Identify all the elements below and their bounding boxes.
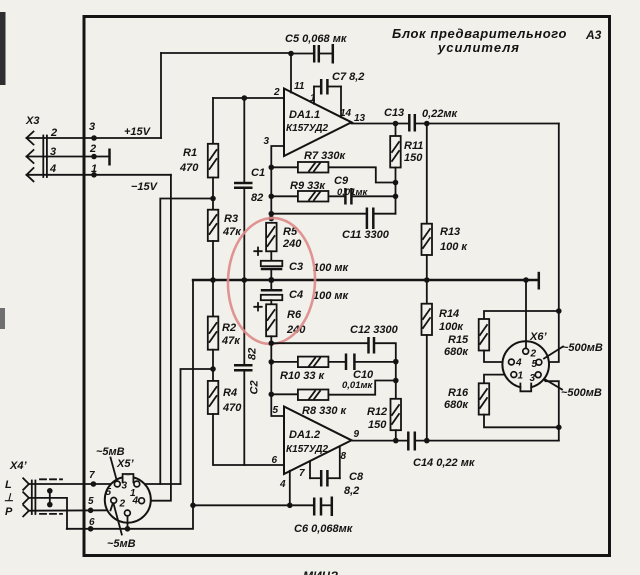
resistor R4 — [208, 369, 284, 465]
leader to lower 500mV — [544, 379, 562, 390]
svg-text:680к: 680к — [444, 399, 469, 411]
svg-text:R13: R13 — [440, 226, 460, 238]
connector X3 arrow row 2 — [27, 150, 34, 163]
svg-text:5: 5 — [88, 496, 94, 507]
leader lower 5mV from pin 5 — [114, 504, 122, 535]
svg-text:5: 5 — [273, 405, 279, 416]
pin 11 stub — [290, 54, 292, 93]
svg-text:150: 150 — [368, 419, 387, 431]
X6 pin 5 — [536, 359, 542, 365]
node bus R3/R2 — [210, 277, 216, 283]
scan artifact left edge top — [0, 12, 6, 85]
node R1/R3 -15V — [210, 196, 216, 202]
svg-text:С12 3300: С12 3300 — [350, 324, 399, 336]
svg-text:4: 4 — [49, 163, 56, 175]
svg-text:R10 33 к: R10 33 к — [280, 370, 326, 382]
capacitor C11 — [269, 208, 396, 230]
svg-text:А3: А3 — [585, 28, 602, 42]
svg-text:5: 5 — [106, 487, 112, 498]
svg-text:0,22мк: 0,22мк — [422, 108, 459, 120]
capacitor C14 — [408, 432, 559, 451]
wire X6 pin1 row — [484, 375, 511, 384]
pin 4 riser — [289, 471, 291, 506]
wire pin3 to output vertical (CH2) — [541, 376, 559, 440]
svg-text:R3: R3 — [224, 213, 238, 225]
svg-text:82: 82 — [251, 192, 263, 204]
X5 pin 5 — [111, 498, 117, 504]
output wire DA1.2 pin 9 — [352, 440, 408, 442]
svg-text:2: 2 — [273, 87, 280, 98]
svg-text:0,01мк: 0,01мк — [342, 380, 374, 391]
connector X3 mating bars — [42, 136, 44, 178]
svg-text:~5мВ: ~5мВ — [96, 446, 125, 458]
op-amp U2 DA1.2 — [284, 407, 352, 475]
svg-text:⊥: ⊥ — [4, 492, 14, 504]
X5 pin 5 tail — [111, 503, 113, 510]
svg-text:С5 0,068 мк: С5 0,068 мк — [285, 33, 348, 45]
connector X5 circle — [105, 477, 151, 523]
capacitor C2 (rotated labels) — [234, 280, 253, 465]
node R2/R4 — [210, 366, 216, 372]
svg-text:470: 470 — [222, 402, 242, 414]
node X3 pin3 — [91, 135, 97, 141]
node bus R13/R14 — [424, 277, 430, 283]
capacitor C1 — [234, 98, 253, 280]
svg-text:3: 3 — [122, 481, 128, 492]
connector X3 arrow row 1 — [27, 132, 34, 145]
plus sign of C3 — [254, 248, 261, 256]
scan artifact left edge middle — [0, 308, 5, 329]
wire input L riser from X5 pin1 to R1/R3 node — [140, 483, 181, 485]
node R6 bottom / C12 row — [269, 340, 275, 346]
svg-text:С3: С3 — [289, 261, 303, 273]
plus sign of C4 — [254, 303, 261, 311]
node R5 top — [269, 216, 275, 222]
wire -15V long descender to X5 pin4 — [145, 175, 171, 501]
resistor R7 — [269, 162, 396, 183]
svg-text:0,01мк: 0,01мк — [337, 187, 369, 198]
svg-text:R15: R15 — [448, 334, 469, 346]
svg-text:−15V: −15V — [131, 181, 159, 193]
shield drain — [49, 491, 51, 506]
svg-text:Х4’: Х4’ — [9, 460, 27, 472]
svg-text:6: 6 — [272, 455, 278, 466]
node after C13 — [424, 121, 430, 127]
svg-text:Х3: Х3 — [25, 115, 39, 127]
resistor R16 — [479, 383, 559, 427]
svg-text:1: 1 — [310, 93, 316, 104]
svg-text:3: 3 — [264, 136, 270, 147]
wire +15V top rail — [161, 52, 291, 54]
node R7 wire — [393, 180, 399, 186]
svg-text:С1: С1 — [251, 167, 265, 179]
X4 arrow row L — [23, 478, 29, 490]
capacitor C10 — [346, 354, 396, 371]
ground bus (mid horizontal) — [193, 279, 537, 281]
resistor R2 — [208, 280, 219, 369]
svg-text:7: 7 — [89, 470, 95, 481]
svg-text:240: 240 — [282, 238, 302, 250]
svg-text:С2: С2 — [249, 380, 261, 394]
X5 pin 4 — [139, 498, 145, 504]
X4 wire R row — [29, 509, 110, 511]
svg-text:С9: С9 — [334, 175, 349, 187]
X4 arrow row R — [23, 505, 29, 516]
svg-text:С14 0,22 мк: С14 0,22 мк — [413, 457, 476, 469]
svg-text:9: 9 — [354, 429, 360, 440]
node output/R11 — [393, 121, 399, 127]
svg-text:R14: R14 — [439, 308, 459, 320]
connector X3 arrow row 3 — [27, 168, 34, 181]
X5 pin 3 — [114, 481, 120, 487]
svg-text:R11: R11 — [404, 140, 423, 152]
svg-text:3: 3 — [89, 121, 95, 133]
svg-text:4: 4 — [132, 496, 139, 507]
node C9 wire — [393, 194, 399, 200]
node pin4 riser — [287, 503, 293, 509]
X6 pin 2 — [523, 348, 529, 354]
svg-text:Блок предварительного: Блок предварительного — [392, 26, 567, 41]
svg-text:100 мк: 100 мк — [313, 290, 350, 302]
resistor R14 — [422, 280, 433, 441]
node X4 pin6 ground row — [88, 526, 94, 532]
svg-text:R8 330 к: R8 330 к — [302, 405, 348, 417]
svg-text:~500мВ: ~500мВ — [562, 342, 603, 354]
svg-text:47к: 47к — [221, 335, 241, 347]
shield dashed lines — [40, 478, 62, 480]
svg-text:С8: С8 — [349, 471, 364, 483]
X6 pin 1 — [511, 372, 517, 378]
capacitor C5 with chassis bar — [291, 44, 333, 64]
capacitor C6 with chassis bar — [290, 497, 332, 517]
svg-text:R7 330к: R7 330к — [304, 150, 346, 162]
X4 wire shield row — [29, 498, 67, 529]
svg-text:К157УД2: К157УД2 — [286, 123, 328, 134]
svg-text:8: 8 — [341, 451, 347, 462]
svg-text:R12: R12 — [367, 406, 387, 418]
pin 3 wire — [271, 146, 284, 219]
svg-text:С11 3300: С11 3300 — [342, 229, 390, 241]
leader to upper 500mV — [544, 347, 563, 359]
capacitor C7 — [314, 79, 341, 117]
X5 pin 1 — [134, 481, 140, 487]
node R16 bottom / output CH2 — [556, 425, 562, 431]
junction ground riser / op-amp V- row — [190, 503, 196, 509]
svg-text:4: 4 — [279, 479, 286, 490]
svg-text:6: 6 — [89, 517, 95, 528]
pin 5 wire — [271, 394, 284, 416]
svg-text:100 мк: 100 мк — [313, 262, 350, 274]
svg-text:L: L — [5, 479, 12, 491]
svg-text:R16: R16 — [448, 387, 469, 399]
wire DA1.2 supply row — [193, 504, 290, 506]
svg-text:5: 5 — [532, 359, 538, 370]
wire -15V row — [27, 174, 171, 176]
svg-text:100 к: 100 к — [440, 241, 468, 253]
svg-text:470: 470 — [179, 162, 199, 174]
node bus X6 pin2 riser — [523, 277, 529, 283]
svg-text:С4: С4 — [289, 289, 303, 301]
svg-text:С13: С13 — [384, 107, 404, 119]
svg-text:13: 13 — [354, 113, 366, 124]
resistor R11 — [390, 124, 401, 214]
X6 pin 3 — [535, 372, 541, 378]
chassis terminal at bus right end — [538, 272, 541, 290]
X6 pin 4 — [509, 359, 515, 365]
svg-text:150: 150 — [404, 152, 423, 164]
capacitor C3 (electrolytic) — [261, 261, 283, 280]
chassis terminal at X3 pin2 — [94, 156, 108, 158]
resistor R8 — [269, 381, 396, 401]
X4 mating bars — [31, 481, 33, 515]
capacitor C8 — [310, 447, 340, 487]
svg-text:С6 0,068мк: С6 0,068мк — [294, 523, 354, 535]
svg-text:R2: R2 — [222, 322, 236, 334]
X5 pin 2 tail to ground row — [127, 516, 129, 529]
node R8 wire / R12 top — [393, 378, 399, 384]
X6 keyway notch — [521, 382, 530, 389]
resistor R15 — [479, 319, 509, 362]
leader upper 5mV to pin 3 — [111, 458, 117, 480]
svg-text:~500мВ: ~500мВ — [561, 387, 602, 399]
svg-text:С7 8,2: С7 8,2 — [332, 71, 364, 83]
resistor R10 — [269, 343, 345, 394]
svg-text:Р: Р — [5, 506, 13, 518]
svg-text:R4: R4 — [223, 387, 237, 399]
resistor R1 — [208, 98, 219, 199]
svg-text:2: 2 — [119, 499, 126, 510]
wire right output vertical (CH1) — [542, 124, 559, 363]
svg-text:1: 1 — [518, 371, 524, 382]
output wire DA1.1 pin 13 — [352, 123, 409, 125]
wire riser to R2/R4 node — [181, 369, 214, 484]
wire +15V row — [27, 137, 162, 139]
X4 wire L row — [29, 483, 115, 485]
svg-text:Х5’: Х5’ — [116, 458, 134, 470]
X5 keyway notch — [124, 476, 133, 483]
node C10 wire — [393, 359, 399, 365]
resistor R3 — [208, 199, 219, 281]
capacitor C12 — [271, 337, 396, 362]
node X3 pin2 — [91, 154, 97, 160]
svg-text:4: 4 — [515, 358, 522, 369]
wire X3 row 2 — [27, 156, 95, 158]
svg-text:R1: R1 — [183, 147, 197, 159]
resistor R9 — [269, 191, 345, 202]
svg-text:3: 3 — [530, 373, 536, 384]
capacitor C4 (electrolytic) — [261, 280, 283, 304]
svg-text:R6: R6 — [287, 309, 302, 321]
svg-text:DA1.1: DA1.1 — [289, 109, 320, 121]
node X3 pin1 — [91, 172, 97, 178]
capacitor C9 — [345, 188, 395, 205]
svg-text:680к: 680к — [444, 346, 469, 358]
svg-text:47к: 47к — [222, 226, 242, 238]
X6 pin2 riser — [525, 280, 527, 348]
svg-text:МИЦЗ: МИЦЗ — [303, 569, 338, 575]
svg-text:7: 7 — [299, 468, 305, 479]
node bus C3/C4 — [268, 277, 274, 283]
frame border — [84, 17, 610, 556]
svg-text:2: 2 — [89, 143, 96, 155]
resistor R6 — [266, 304, 277, 343]
node rail / pin11 — [288, 51, 294, 57]
svg-text:R9 33к: R9 33к — [290, 180, 326, 192]
pin 2 wire — [213, 97, 284, 99]
svg-text:К157УД2: К157УД2 — [286, 444, 328, 455]
svg-text:11: 11 — [294, 81, 305, 92]
connector X6 circle — [502, 341, 549, 388]
wire +15V riser — [160, 53, 162, 138]
svg-text:усилителя: усилителя — [437, 40, 520, 55]
svg-text:240: 240 — [286, 324, 306, 336]
op-amp U1 DA1.1 — [284, 89, 352, 157]
svg-text:14: 14 — [340, 108, 352, 119]
node bus C1/C2 — [242, 277, 248, 283]
resistor R12 — [391, 399, 402, 441]
wire R15 top row — [484, 311, 559, 319]
capacitor C13 — [409, 114, 559, 132]
wire ground riser (bus left end) down to X4 row — [67, 280, 193, 529]
resistor R5 — [266, 223, 277, 261]
svg-text:82: 82 — [247, 348, 259, 360]
X5 pin 2 — [125, 510, 131, 516]
svg-text:100к: 100к — [439, 321, 464, 333]
svg-text:~5мВ: ~5мВ — [107, 538, 136, 550]
resistor R13 — [422, 124, 433, 281]
svg-text:8,2: 8,2 — [344, 485, 359, 497]
svg-text:DA1.2: DA1.2 — [289, 429, 320, 441]
X4 arrow row shield — [23, 492, 29, 503]
svg-text:2: 2 — [530, 349, 537, 360]
node y311 — [556, 308, 562, 314]
red pencil ellipse annotation — [226, 217, 317, 346]
svg-text:Х6’: Х6’ — [529, 331, 547, 343]
svg-text:+15V: +15V — [124, 126, 152, 138]
